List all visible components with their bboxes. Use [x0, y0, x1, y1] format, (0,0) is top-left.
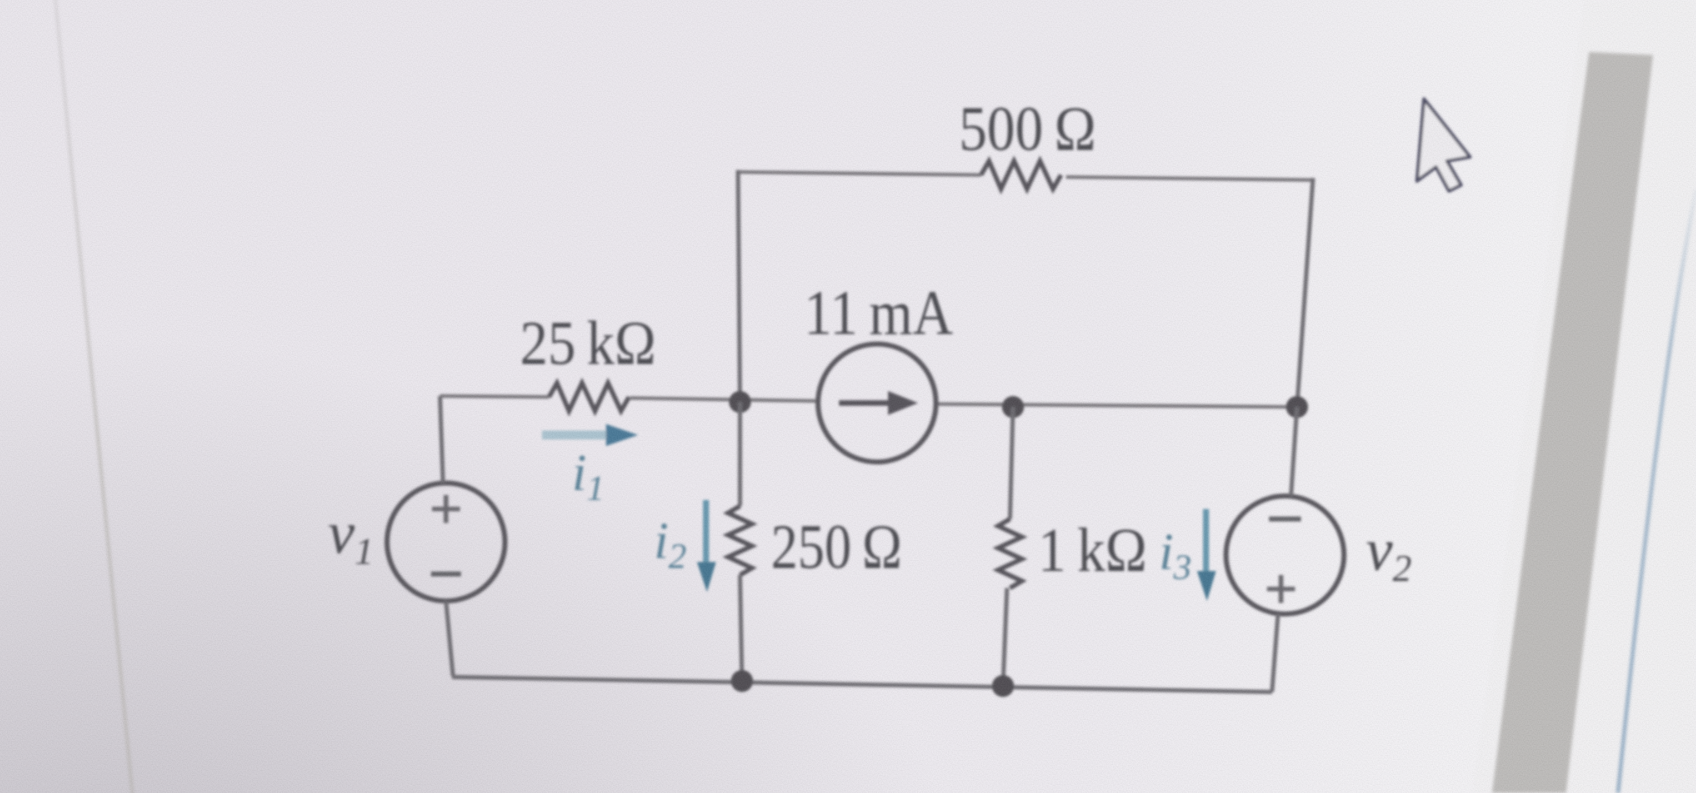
wire: 1kohm branch lower lead — [1003, 588, 1007, 686]
node dot mid middle — [1002, 396, 1024, 418]
voltage source v2 circle — [1226, 496, 1344, 614]
blue window edge line right — [1618, 190, 1696, 793]
node dot bottom left — [731, 670, 753, 692]
resistor 500ohm zigzag — [981, 161, 1061, 189]
current source 11mA circle — [818, 344, 936, 462]
v1 plus sign — [432, 495, 460, 523]
wire: middle horizontal 25k to current source — [630, 398, 818, 401]
resistor 250ohm zigzag — [728, 506, 752, 575]
wire: top loop left horizontal (node to 500ohm) — [738, 172, 981, 175]
wire: 250ohm branch lower lead — [740, 575, 742, 681]
v2 minus sign — [1269, 517, 1301, 522]
current arrow i3 (blue, down) — [1203, 509, 1209, 573]
wire: left vertical of top loop — [738, 170, 740, 402]
wire: v1 bottom lead to bottom left corner — [446, 601, 453, 676]
current arrow i2 (blue, down) — [703, 500, 709, 566]
wire: 1kohm branch upper lead — [1010, 407, 1013, 519]
resistor 1kohm zigzag — [998, 519, 1022, 588]
wire: right vertical of top loop — [1297, 178, 1313, 407]
wire: middle horizontal from v1 to 25k — [440, 396, 549, 397]
node dot bottom right — [992, 675, 1014, 697]
node dot left middle — [729, 391, 751, 413]
wire: v2 top lead — [1291, 407, 1297, 496]
wire: top loop right horizontal (500ohm to top right corner) — [1066, 177, 1313, 180]
scrollbar thumb — [1492, 52, 1653, 793]
v2 plus sign — [1267, 575, 1295, 603]
mouse cursor — [1417, 99, 1470, 191]
wire: middle horizontal current source to right node — [936, 404, 1297, 407]
wire: bottom horizontal — [452, 677, 1272, 692]
wire: 250ohm branch upper lead — [738, 402, 742, 506]
wire: v1 top lead — [440, 396, 443, 483]
wire: v2 bottom lead — [1272, 614, 1278, 692]
screen glare diagonal line top-left — [55, 0, 133, 793]
current arrow i1 (blue, right) — [542, 431, 610, 440]
scrollbar track — [1472, 0, 1696, 793]
voltage source v1 circle — [387, 483, 505, 601]
v1 minus sign — [431, 572, 461, 577]
current source arrow — [839, 400, 895, 405]
resistor 25kohm zigzag — [549, 383, 629, 411]
node dot right middle — [1286, 396, 1308, 418]
